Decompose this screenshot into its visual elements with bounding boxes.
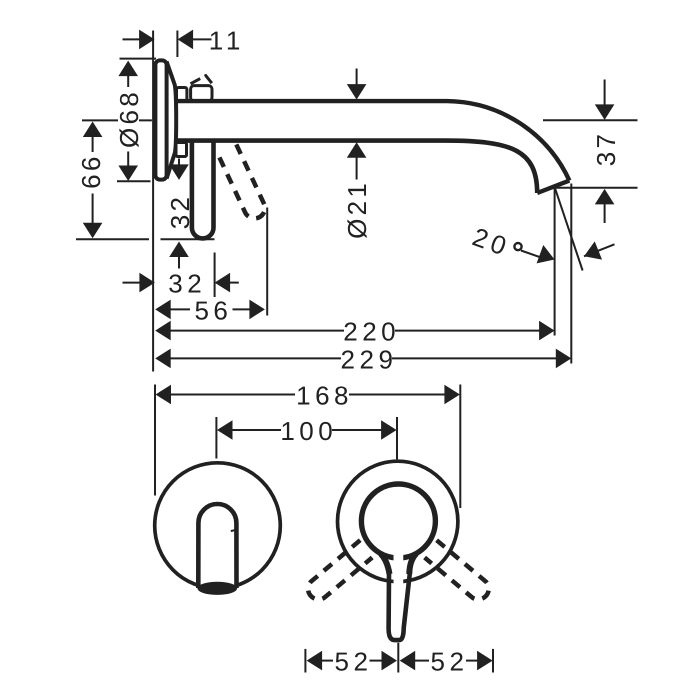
svg-text:168: 168 (296, 380, 353, 410)
svg-text:52: 52 (431, 647, 469, 677)
svg-text:11: 11 (209, 25, 245, 55)
svg-text:220: 220 (343, 317, 400, 347)
svg-text:37: 37 (591, 131, 621, 167)
svg-text:100: 100 (280, 416, 337, 446)
svg-text:56: 56 (194, 295, 232, 325)
svg-text:66: 66 (76, 153, 106, 189)
svg-text:Ø21: Ø21 (342, 180, 372, 239)
svg-text:52: 52 (335, 647, 373, 677)
svg-text:229: 229 (341, 344, 398, 374)
svg-text:32: 32 (165, 194, 195, 230)
svg-text:20: 20 (469, 221, 515, 262)
svg-text:32: 32 (168, 269, 206, 299)
svg-text:Ø68: Ø68 (114, 89, 144, 148)
